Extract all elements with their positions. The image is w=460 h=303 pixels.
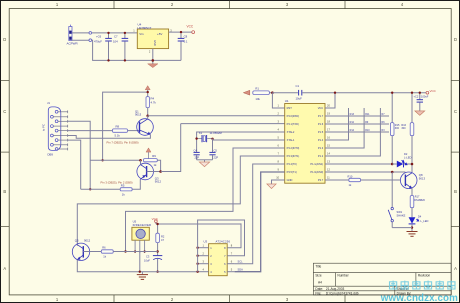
VCC rail bottom section [156,223,241,225]
wire P3.7 row through R10 to ... [325,179,349,181]
svg-text:B: B [3,189,6,194]
capacitor C4 [194,142,200,160]
svg-text:5.1k: 5.1k [115,134,121,138]
svg-text:SHAKE: SHAKE [397,213,406,217]
wire U3 pin8 to VCC rail [227,223,241,247]
svg-text:SCL: SCL [238,260,244,264]
svg-text:U1: U1 [285,99,289,103]
svg-text:A4: A4 [318,280,322,284]
svg-text:P1.1(AIN1): P1.1(AIN1) [310,162,323,166]
svg-text:GND: GND [287,178,293,182]
node circle [89,39,92,42]
svg-text:R1: R1 [255,86,259,90]
IC U1 body [285,99,325,183]
resistor R1 [253,86,270,101]
wire Q8 emitter down to R17 [411,188,413,195]
svg-text:R12: R12 [350,121,355,124]
GND power port (arrow) at U1 pin10 [267,180,285,189]
svg-text:9012: 9012 [84,239,91,243]
svg-text:Pin 7 (DB25), Pin 8 (DB9): Pin 7 (DB25), Pin 8 (DB9) [107,141,139,145]
svg-text:L-LED: L-LED [404,155,411,159]
EEPROM U3 AT24C256 [204,239,231,275]
wire Q5 emitter down to ground rail [77,260,197,272]
svg-text:IRRECEIVER: IRRECEIVER [133,223,152,227]
DB9 pin stubs [53,110,67,150]
svg-text:10uF: 10uF [296,97,303,101]
capacitor C1 (series on wire) [296,84,303,100]
wire P1.0 row to Q8 base [325,171,405,173]
svg-text:300: 300 [401,127,406,130]
svg-text:22P: 22P [195,155,200,159]
svg-text:0.1: 0.1 [184,40,188,44]
svg-text:P1.7: P1.7 [318,114,324,118]
svg-text:D4: D4 [418,214,422,218]
U3 right pin stubs [227,263,234,265]
svg-text:www.cndzx.com: www.cndzx.com [380,293,458,303]
wire: DB9 pin4 down to R5 row [68,140,81,189]
wire R1 to junction [269,92,272,94]
junction [152,59,155,62]
wire R4 to Q1 collector node [147,108,149,116]
svg-text:470uF: 470uF [94,40,102,44]
wire Q5 base to R6 [83,251,101,253]
junction RST node [271,91,274,94]
svg-text:P3.3(INT1): P3.3(INT1) [287,154,300,158]
GND power port (arrow left) at R1 [243,90,250,95]
transistor Q3 (PNP 9012) [137,160,162,183]
svg-text:R10: R10 [348,174,353,178]
wire C1 to VCC rail [302,92,335,94]
svg-text:104: 104 [113,40,118,44]
resistor R10 [348,174,361,187]
svg-text:C8: C8 [184,35,188,39]
resistor R16 (VCC to Q8 collector) [401,93,413,173]
svg-text:Revision: Revision [418,274,430,278]
connector J2 (AC power input) [67,25,79,46]
svg-text:RST: RST [287,106,293,110]
svg-text:P1.3: P1.3 [318,146,324,150]
svg-text:Size: Size [315,274,321,278]
svg-text:+C6: +C6 [96,35,102,39]
svg-text:SDA: SDA [238,268,244,272]
junction [124,32,126,34]
U1 pin names left [287,106,300,182]
svg-text:P3.5(T1): P3.5(T1) [287,170,297,174]
svg-text:U3: U3 [204,239,208,243]
resistor column 3 and wire to P1.2 [325,108,380,156]
wire: connector pin2 [72,39,89,41]
U1 pin numbers left [276,104,279,180]
resistor R9 (horizontal above Q3) [144,154,158,167]
wire R17 to LED D4 [411,208,413,218]
wire P1.7 row [325,115,389,117]
U3 pin numbers [203,243,233,271]
wire R9 right end down to base row [157,160,160,171]
regulator U4 LM7805CT [133,23,172,54]
transistor Q5 (PNP 9012) bottom-left [72,239,90,261]
svg-text:100uF: 100uF [421,95,429,99]
svg-text:Q5: Q5 [75,239,79,243]
svg-text:300: 300 [395,127,400,130]
svg-text:Number: Number [337,274,349,278]
wire U3 pin7 loop to left vertical [198,220,245,272]
svg-text:C: C [3,109,6,114]
wire P1.6 row [325,123,389,125]
svg-text:22P: 22P [214,155,219,159]
svg-text:SW1: SW1 [397,210,403,214]
svg-text:XTAL1: XTAL1 [287,138,295,142]
svg-text:R2: R2 [161,235,165,239]
transistor Q1 (NPN 9013) [135,109,153,135]
svg-text:X1: X1 [199,131,203,135]
svg-text:XTAL2: XTAL2 [287,130,295,134]
wire U1 pin20 up to rail [284,107,286,109]
LED D4 [409,214,429,224]
svg-text:C5: C5 [214,148,218,152]
svg-text:DB9: DB9 [48,152,54,156]
svg-text:10uF: 10uF [144,258,150,262]
output wire to VCC [169,31,192,33]
svg-text:C4: C4 [194,148,198,152]
U1 pin numbers right [327,104,330,180]
node circle [89,32,92,35]
svg-text:B: B [454,189,457,194]
svg-text:P3.4(T0): P3.4(T0) [287,162,297,166]
svg-text:10k: 10k [255,97,260,101]
svg-text:VCC: VCC [318,106,324,110]
ground power port (arrow) under regulator [148,64,158,68]
svg-text:P3.2(INT0): P3.2(INT0) [287,146,300,150]
svg-text:D: D [3,37,6,42]
wire: VCC branch going left and down column x=102.6 [103,92,148,160]
VCC power port [187,25,195,34]
wire: Q3 emitter down to R5 row [132,179,140,189]
wire: base row to riser x=204.8 [161,124,181,172]
capacitor C7 [113,33,128,61]
resistor R5 [120,184,132,197]
wire RST node to pin1 [272,93,284,108]
wire: DB9 pin2 down to R5 row [68,121,91,189]
wire: connector pin1 to regulator input [72,32,89,34]
svg-text:J1: J1 [47,101,50,105]
wire: DB9 pin3 to R8 [68,130,113,132]
svg-text:File:: File: [315,291,321,295]
svg-text:C1: C1 [296,84,300,88]
svg-text:+C2: +C2 [414,95,419,99]
svg-text:P3.7: P3.7 [318,178,324,182]
svg-text:11.0592M: 11.0592M [210,131,223,135]
svg-text:R11: R11 [365,113,370,116]
watermark chinese characters (drawn as glyph-like strokes) [390,281,456,289]
svg-text:C: C [454,109,457,114]
svg-text:VCC: VCC [152,217,159,221]
connector J1 DB9 [42,101,61,156]
svg-text:LM7805CT: LM7805CT [138,26,152,30]
svg-text:R6: R6 [102,246,106,250]
junction [180,31,182,33]
junction [89,188,91,190]
wire P1.5 row [325,131,389,133]
wire R6 to IR leg [113,251,157,253]
svg-text:D2: D2 [404,152,408,156]
svg-text:4.7k: 4.7k [151,100,157,104]
VCC power port above R9 [146,148,151,152]
wire R5 left arm [81,188,121,190]
capacitor C2 [414,93,429,111]
svg-text:Pin 3 (DB25), Pin 2 (DB9): Pin 3 (DB25), Pin 2 (DB9) [101,180,133,184]
wire INT0: MCU pin6 to IR node [126,148,285,252]
svg-text:D: D [454,37,457,42]
svg-text:GND: GND [153,40,157,46]
capacitor C3 [144,243,162,272]
svg-text:R10: R10 [365,129,370,132]
svg-text:VCC: VCC [430,89,437,93]
capacitor C6 [94,33,112,61]
svg-text:+5V: +5V [157,32,162,36]
resistor R4 [146,97,156,108]
wire: TXD row to MCU pin3 [181,123,285,125]
svg-text:9013: 9013 [135,113,142,117]
switch SW1 [388,172,412,228]
resistor column 1 and wire to P1.4 [325,108,349,140]
earth ground on rail [137,272,148,280]
capacitor C5 [209,139,218,160]
wire P1.1 row to LED node [325,163,392,165]
wire XTAL1 row [213,139,285,140]
svg-text:P1.4: P1.4 [318,138,324,142]
svg-text:9012: 9012 [155,180,162,184]
wire R8 to Q1 base [128,130,140,132]
svg-text:P3.0(RXD): P3.0(RXD) [287,114,300,118]
VCC rail to the right [335,92,426,94]
IR receiver U5 [132,219,151,253]
junction [101,159,103,161]
wire D4 to ground [411,224,413,231]
wire INT1: MCU pin7 to VCC rail [77,156,284,246]
regulator GND pin wire [152,49,154,64]
wire [92,32,138,34]
earth ground symbol [407,232,418,237]
resistor R2 pullup [156,224,165,243]
svg-text:C3: C3 [146,255,150,259]
svg-text:VCC: VCC [187,25,194,29]
wire XTAL2 row [197,132,285,135]
svg-text:R9: R9 [152,154,156,158]
wire: down and ground rail [92,40,181,60]
svg-text:A: A [454,266,457,271]
svg-text:P1.5: P1.5 [318,130,324,134]
svg-text:A: A [3,266,6,271]
svg-text:L_LED: L_LED [420,219,428,223]
crystal X1 [197,131,223,142]
svg-text:AT24C256: AT24C256 [216,239,231,243]
grid resistor labels [350,113,386,132]
wire IR legs to rail ground [139,252,141,272]
wire SCL: MCU pin8 to U3 pin6 [235,164,285,264]
VCC power port right [426,89,437,94]
VCC power port [152,217,159,224]
GND power port under C2 [415,111,425,116]
svg-text:Vin: Vin [139,32,144,36]
svg-text:P1.2: P1.2 [318,154,324,158]
transistor Q8 (NPN 9013) [400,172,425,189]
svg-text:ACPWR: ACPWR [67,42,79,46]
wire SDA: MCU pin9 to U3 pin5 [235,172,285,272]
wire: Q3 base to junction [147,171,161,173]
svg-text:Date:: Date: [315,287,323,291]
svg-text:C7: C7 [114,35,118,39]
junction [107,32,109,34]
svg-text:21-Aug-2003: 21-Aug-2003 [326,287,345,291]
hmm small link from x=90.2? keep as drawn [139,159,142,162]
capacitor C8 [178,32,188,60]
wire: Q3 collector node row [90,159,140,161]
resistor R17 [410,196,425,208]
wire: RXD row to MCU pin2 [148,115,285,117]
resistor R8 [113,125,128,138]
junction at Q1 collector node [146,115,149,118]
U1 pin names right [310,106,323,182]
svg-text:9013: 9013 [419,176,426,180]
svg-text:R13: R13 [350,113,355,116]
svg-text:P3.1(TXD): P3.1(TXD) [287,122,299,126]
resistor R6 [101,246,113,259]
VCC power port above R4 [145,86,150,97]
svg-text:P1.6: P1.6 [318,122,324,126]
resistor R15 (VCC to LED anode node) [390,93,400,164]
svg-text:D:\Cprog\S743743.ddb: D:\Cprog\S743743.ddb [326,291,359,295]
svg-text:R8: R8 [116,125,120,129]
U3 left pins tied vertical [198,248,209,272]
wire: Q1 emitter to DB9 pin8 [68,135,151,139]
svg-text:R5: R5 [121,184,125,188]
svg-text:P1.0(AIN0): P1.0(AIN0) [310,170,323,174]
svg-text:DS18B20: DS18B20 [414,199,425,202]
wire RST node to C1 [272,92,298,94]
svg-text:R14: R14 [350,129,355,132]
LED D2 [392,152,412,167]
resistor column 2 and wire to P1.3 [325,108,364,148]
svg-text:to PC: to PC [42,124,46,131]
svg-text:Title: Title [315,264,321,268]
ground wire and power port under crystal [197,160,213,167]
